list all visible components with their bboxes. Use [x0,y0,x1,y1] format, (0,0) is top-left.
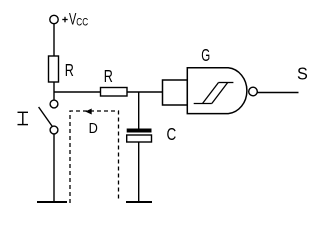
wire Vcc terminal to resistor R1 [53,24,55,56]
terminal +Vcc [50,15,58,23]
ground rail right [126,201,152,203]
resistor R1 (vertical) [49,56,59,82]
node/junction to capacitor [138,92,140,129]
capacitor C bottom plate [127,135,152,142]
schmitt hysteresis symbol [194,83,234,104]
wire R2 to gate input [127,91,163,93]
gate input box [163,80,188,105]
wire capacitor to ground rail [138,142,140,202]
gate G body [187,68,247,114]
label I [18,112,29,124]
ground rail left [37,201,67,203]
switch I blade [39,107,53,127]
svg-text:G: G [201,45,210,65]
svg-text:R: R [104,67,113,87]
arrow on box D [85,109,92,115]
svg-text:C: C [167,125,177,144]
svg-text:D: D [89,119,98,136]
resistor R2 (horizontal) [101,88,128,97]
switch I top contact [50,100,58,108]
svg-text:R: R [65,61,74,81]
dashed feedback box D [70,111,119,203]
svg-text:V: V [69,10,77,29]
wire switch bottom to ground rail [53,134,55,202]
switch I bottom contact [50,126,58,134]
label +Vcc [62,10,88,29]
output wire S [257,92,298,94]
svg-text:CC: CC [76,17,88,29]
wire node to resistor R2 (horizontal) [54,91,101,93]
wire R1 bottom to node [53,82,55,100]
svg-text:S: S [297,64,308,84]
capacitor C top plate [127,129,152,133]
inverter bubble [249,87,258,96]
